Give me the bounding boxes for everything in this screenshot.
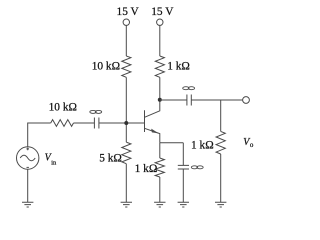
source Vin (sine) (17, 147, 39, 169)
plus mark (26, 148, 29, 151)
wire C3 to ground (182, 169, 184, 202)
svg-text:o: o (250, 141, 254, 149)
minus mark (27, 166, 29, 168)
ground (C3) (178, 202, 189, 207)
infinity mark C1 (90, 110, 96, 113)
supply terminal +15V left (123, 19, 129, 25)
node collector (junction dot) (158, 98, 162, 102)
wire emitter tee (160, 142, 184, 144)
wire R3 to C1 (74, 122, 95, 124)
resistor R3 10k (series input) (51, 120, 74, 127)
infinity mark C2 (183, 87, 189, 90)
transistor Q1 base bar (144, 110, 146, 132)
wire tee to C3 (182, 143, 184, 166)
wire R6 to ground (159, 177, 161, 202)
ground (source) (22, 202, 33, 207)
wire R5 to ground (220, 154, 222, 202)
resistor R6 1k (emitter) (155, 158, 164, 177)
infinity mark C3 (191, 166, 197, 169)
wire output tee to R5 (220, 100, 222, 131)
svg-text:10 kΩ: 10 kΩ (49, 101, 77, 113)
resistor R2 1k (collector) (155, 56, 164, 77)
wire C1 to base (99, 122, 145, 124)
sine wave (20, 155, 35, 161)
wire C2 to output terminal (191, 99, 242, 101)
resistor R4 5k (bias lower) (122, 142, 131, 164)
svg-text:1 kΩ: 1 kΩ (135, 163, 158, 175)
wire R1 to base node (125, 77, 127, 123)
transistor Q1 collector lead (145, 100, 160, 118)
ground (R5) (215, 202, 226, 207)
resistor R1 10k (bias upper) (122, 56, 131, 77)
wire source top to R3 (28, 123, 51, 147)
svg-text:15 V: 15 V (117, 6, 140, 18)
node base (junction dot) (124, 121, 128, 125)
svg-text:5 kΩ: 5 kΩ (99, 153, 122, 165)
wire base node to R4 (125, 123, 127, 142)
ground (R4) (121, 202, 132, 207)
svg-text:10 kΩ: 10 kΩ (92, 61, 120, 73)
svg-text:1 kΩ: 1 kΩ (191, 139, 214, 151)
wire collector to C2 (160, 99, 187, 101)
wire supply-left to R1 (125, 25, 127, 56)
transistor Q1 emitter arrow (151, 129, 159, 134)
transistor Q1 emitter lead (145, 128, 160, 143)
wire emitter to R6 (159, 143, 161, 158)
supply terminal +15V right (157, 19, 163, 25)
ground (R6) (154, 202, 165, 207)
wire R4 to ground (125, 164, 127, 203)
resistor R5 1k (load) (216, 131, 225, 154)
capacitor C1 (input coupling) (94, 118, 99, 129)
svg-text:in: in (51, 160, 57, 167)
output terminal Vo (243, 97, 250, 104)
wire source bottom to ground (27, 169, 29, 202)
capacitor C2 (output coupling) (187, 95, 191, 106)
svg-text:1 kΩ: 1 kΩ (167, 61, 190, 73)
wire R2 to collector node (159, 77, 161, 100)
wire supply-right to R2 (159, 25, 161, 56)
capacitor C3 (emitter bypass) (178, 165, 189, 169)
svg-text:15 V: 15 V (151, 6, 174, 18)
